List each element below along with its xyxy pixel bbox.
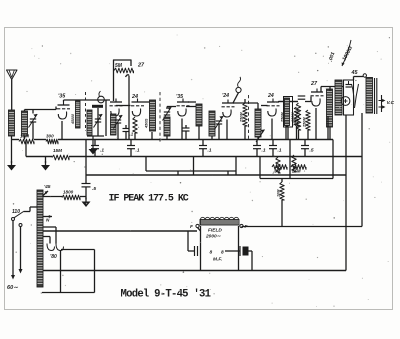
wire res 286 up: [285, 100, 287, 104]
wire C1 bottom: [32, 122, 34, 140]
wire V4 cathode drop: [226, 120, 228, 140]
tube V7 45 filament: [352, 84, 359, 108]
wire ground bus bottom: [40, 270, 346, 272]
wire AF box left: [289, 140, 291, 179]
resistor 300: [46, 139, 58, 144]
svg-text:45000: 45000: [71, 114, 75, 125]
wire ground drop: [45, 157, 47, 164]
capacitor C9 .1 small: [123, 125, 130, 140]
wire heater 1800 line: [43, 196, 87, 198]
label 250M sideways: [240, 112, 244, 123]
wire tank bottom: [87, 135, 104, 137]
label .5M: [273, 169, 281, 174]
coil L8: [255, 109, 261, 137]
label tube 27 AF: [310, 81, 318, 87]
resistor 15M: [52, 155, 69, 160]
wire field right wall: [238, 226, 240, 271]
wire output drop right: [361, 113, 363, 227]
wire L2 top to grid: [24, 110, 26, 112]
ground antenna: [7, 161, 16, 171]
shield dashed line 0: [85, 92, 87, 131]
wire V5 cathode drop: [271, 119, 273, 140]
wire filter box bottom: [42, 292, 95, 294]
wire c14 up: [85, 175, 87, 184]
capacitor C14 .5: [82, 184, 91, 187]
label 8 left: [210, 250, 213, 256]
wire V2 grid stub: [116, 105, 131, 107]
svg-text:.5: .5: [92, 186, 96, 192]
svg-text:8: 8: [210, 250, 213, 256]
coil L3b det tank: [111, 114, 117, 135]
ground osc tank: [89, 136, 98, 155]
wire V3 plate lead: [188, 101, 196, 103]
wire c14 down: [85, 187, 87, 200]
tube V7 45 grid circle: [341, 97, 350, 106]
coil T1 output winding: [335, 80, 342, 115]
svg-text:60∼: 60∼: [7, 285, 18, 291]
wire L1 to ground: [11, 136, 13, 163]
wire L6 bottom: [198, 126, 200, 140]
wire coupling link: [278, 97, 311, 102]
wire V2 plate lead: [144, 101, 153, 103]
capacitor C11 .1: [183, 125, 190, 140]
capacitor .001 plate: [346, 81, 352, 87]
wire rect plate 2: [43, 237, 51, 244]
resistor 5M oscillator: [114, 68, 134, 73]
label tube 24 first det: [131, 94, 138, 100]
label .1: [130, 132, 134, 137]
wire plate to coil: [257, 103, 259, 109]
wire grid cap lead: [233, 93, 239, 103]
wire tick x228: [227, 171, 229, 175]
wire tie x193: [193, 157, 195, 176]
wire tie x260: [259, 157, 261, 179]
label 8 right: [221, 250, 224, 256]
wire V6 cathode drop: [315, 108, 317, 140]
wire L4 bottom: [151, 132, 153, 140]
coil L9 AF choke: [327, 89, 333, 127]
wire L8 bottom: [257, 137, 259, 140]
label tube 24: [267, 93, 274, 99]
resistor osc grid sideways: [76, 101, 81, 128]
wire grid lead V3: [167, 106, 176, 108]
wire L9 top: [329, 87, 331, 92]
resistor 100M: [294, 107, 298, 126]
svg-text:10M: 10M: [277, 189, 281, 197]
wire res 296 down: [296, 126, 298, 140]
label tube 45 output: [351, 70, 359, 76]
svg-text:2000∼: 2000∼: [205, 234, 222, 240]
svg-text:25M: 25M: [293, 118, 297, 127]
svg-text:300: 300: [46, 134, 54, 139]
node F left: [196, 224, 199, 227]
svg-text:27: 27: [310, 81, 318, 87]
node F right: [240, 224, 243, 227]
svg-text:'24: '24: [222, 93, 229, 99]
wire V3 cathode drop: [181, 119, 183, 140]
label 25M: [291, 169, 301, 174]
tube V7 45 box: [344, 80, 354, 115]
svg-text:.1: .1: [136, 148, 140, 154]
wire V3 screen lead: [186, 106, 196, 108]
wire T1 bottom lead: [327, 116, 329, 140]
svg-text:'35: '35: [176, 94, 183, 100]
wire mains to primary 2: [25, 224, 37, 226]
capacitor C4 .1: [199, 140, 207, 157]
tube V8 '80 rectifier: [47, 244, 64, 251]
wire V6 plate lead: [321, 87, 343, 93]
wire tie x332: [332, 140, 334, 179]
wire speaker core: [375, 78, 377, 114]
wire voice coil arrows: [379, 95, 386, 112]
resistor 1800: [62, 195, 80, 200]
wire rect cathode: [60, 251, 62, 293]
label .001 handwritten: [328, 51, 337, 62]
wire r25 down: [298, 130, 300, 140]
variable capacitor C1 tuning: [29, 114, 38, 128]
wire field top left: [198, 228, 201, 231]
grid cap curl: [236, 77, 241, 93]
coil L3a osc tank: [87, 110, 92, 135]
wire grid leak bottom: [244, 126, 246, 140]
label 25M sideways: [293, 118, 297, 127]
svg-text:27: 27: [137, 63, 145, 69]
wire AVC rail with resistors: [12, 139, 334, 141]
resistor 250M: [284, 104, 288, 126]
svg-text:8: 8: [221, 250, 224, 256]
wire V5 grid stub: [261, 105, 268, 107]
svg-text:1800: 1800: [63, 190, 74, 195]
coil L5 IF secondary: [164, 117, 170, 136]
coil L6 IF2 primary: [196, 104, 202, 126]
label .1: [262, 148, 266, 154]
coil L2 antenna secondary: [22, 111, 28, 136]
wire tie x88: [85, 140, 87, 175]
wire C8b bottom: [117, 123, 119, 140]
wire 45 top link: [354, 77, 364, 81]
resistor 250M AF: [306, 110, 310, 130]
wire V5 plate lead: [279, 101, 298, 103]
wire c16 drop: [251, 251, 253, 271]
label .1: [136, 148, 140, 154]
wire field feed: [242, 226, 363, 228]
wire C1 top: [32, 110, 34, 114]
capacitor C2 .1: [91, 140, 99, 157]
coil field 2000 ohm: [200, 217, 239, 225]
wire tick x178: [177, 171, 179, 175]
label M.F.: [213, 257, 222, 263]
wire grid leak top: [244, 99, 246, 103]
coil L7 IF2 secondary: [209, 111, 215, 136]
svg-text:Model 9-T-45 '31: Model 9-T-45 '31: [121, 289, 211, 301]
ground cathode rail: [41, 161, 50, 171]
label 10M sideways: [277, 189, 281, 197]
svg-text:.1: .1: [262, 148, 266, 154]
resistor R cathode V2: [133, 117, 137, 133]
wire rail stub left: [25, 140, 27, 157]
wire mains to primary: [24, 207, 38, 212]
label tube '35 first RF: [58, 94, 66, 100]
label .1: [208, 148, 212, 154]
wire pot bottom: [287, 127, 289, 140]
tube V1 '35: [57, 102, 70, 120]
label 1000 ohm handwritten: [341, 45, 354, 62]
svg-text:45: 45: [351, 70, 359, 76]
resistor 250M grid leak: [243, 103, 247, 126]
shield dashed line 2: [248, 95, 250, 140]
variable capacitor C8a: [94, 114, 103, 128]
resistor 25M AF: [296, 103, 300, 130]
svg-text:.5: .5: [310, 148, 314, 154]
label 2000 ohm: [205, 234, 222, 240]
svg-text:10M: 10M: [20, 134, 29, 139]
trimmer arrow L8: [256, 130, 265, 143]
scan speckle noise: [13, 35, 390, 307]
tube V9 27 oscillator: [110, 99, 123, 117]
wire L2 bottom: [24, 136, 26, 140]
coil L4 IF primary: [150, 100, 156, 131]
tube V6 27: [311, 89, 324, 107]
label FIELD: [208, 228, 222, 234]
label .1: [278, 148, 282, 154]
svg-text:'45: '45: [44, 184, 51, 190]
wire V1 grid stub: [56, 108, 58, 110]
label 250M sideways 2: [281, 112, 285, 123]
wire heater arrow 2: [43, 215, 53, 218]
wire output drop left: [345, 115, 347, 271]
wire B+ filter bus: [41, 230, 197, 232]
svg-text:IF PEAK 177.5 KC: IF PEAK 177.5 KC: [109, 194, 189, 205]
svg-text:FIELD: FIELD: [208, 228, 222, 234]
capacitor C15 8mf: [188, 246, 198, 256]
label F left: [190, 224, 194, 230]
resistor 25M: [291, 165, 306, 170]
wire L5 bottom: [166, 136, 168, 140]
wire V1 cathode drop: [61, 121, 63, 140]
resistor bias vertical: [276, 157, 280, 173]
svg-text:.1: .1: [130, 132, 134, 137]
label Model 9-T-45 '31: [121, 289, 211, 301]
wire c15 feed: [187, 231, 189, 251]
capacitor C13 coupling: [298, 96, 306, 99]
resistor .5M: [272, 165, 287, 170]
label F right: [245, 224, 249, 230]
wire L7 bottom: [211, 136, 213, 140]
potentiometer volume: [284, 97, 293, 128]
label 110 volts: [12, 209, 20, 215]
label 250M sideways 3: [303, 117, 307, 128]
node grid cap loop: [98, 91, 105, 103]
wire filter box right: [94, 250, 96, 293]
wire pointer arrow: [342, 40, 351, 66]
svg-text:'35: '35: [58, 94, 66, 100]
ground c14: [82, 198, 91, 208]
wire antenna lead: [11, 80, 13, 111]
wire r250 down: [307, 130, 309, 140]
label 100M sideways: [291, 112, 295, 122]
coil T2 speaker primary: [366, 78, 373, 114]
label .5: [310, 148, 314, 154]
wire V2 cathode drop: [134, 133, 136, 140]
svg-text:.1: .1: [208, 148, 212, 154]
variable capacitor C8b: [114, 115, 123, 129]
wire cathode rail: [26, 156, 362, 158]
wire mains left: [11, 221, 15, 280]
label V.C: [387, 100, 395, 106]
label 5M: [115, 63, 123, 69]
capacitor C7 .5: [301, 140, 309, 157]
wire L9 bottom: [329, 127, 331, 140]
svg-text:V.C: V.C: [387, 100, 395, 106]
svg-text:.1: .1: [278, 148, 282, 154]
node speaker top: [363, 74, 366, 77]
svg-text:250M: 250M: [303, 117, 307, 128]
capacitor C16 8mf: [225, 246, 249, 256]
transformer T3 power: [37, 190, 43, 287]
coil L1 antenna primary: [9, 110, 15, 136]
tube V4 24: [222, 100, 235, 118]
svg-text:250M: 250M: [240, 112, 244, 123]
wire heater 45 arrow: [43, 191, 49, 196]
label tube '35 IF: [176, 94, 183, 100]
capacitor C5 .1: [253, 140, 261, 157]
switch power: [12, 212, 24, 227]
label 15M: [53, 148, 62, 153]
wire mains right: [19, 227, 23, 274]
wire c16 out: [249, 250, 253, 252]
wire C10 top lead: [166, 107, 168, 110]
wire V4 plate lead: [233, 102, 258, 104]
wire C12 bottom: [218, 124, 220, 140]
label 45000 sideways: [71, 114, 75, 125]
capacitor C3 .1: [127, 140, 135, 157]
label tube 24 second det: [222, 93, 229, 99]
wire rect plate 1: [43, 227, 57, 244]
tube V2 24: [131, 99, 144, 117]
label 300: [46, 134, 54, 139]
svg-text:M.F.: M.F.: [213, 257, 222, 263]
capacitor C6 .1: [269, 140, 277, 157]
wire filter box top: [61, 249, 95, 251]
wire osc plate drop: [126, 75, 130, 140]
wire field left wall: [200, 226, 202, 271]
wire V1 plate lead: [64, 99, 111, 101]
wire bar drop: [97, 108, 99, 136]
label .5 cap: [92, 186, 96, 192]
svg-text:450Ω: 450Ω: [145, 119, 149, 129]
label N: [46, 218, 50, 223]
wire V1 plate stub: [63, 100, 65, 102]
label tube '80: [50, 254, 57, 260]
svg-text:'80: '80: [50, 254, 57, 260]
wire res 286 down: [285, 126, 287, 140]
resistor 10M: [19, 139, 34, 144]
svg-text:.1: .1: [100, 148, 104, 154]
resistor bias vertical 2: [292, 155, 296, 172]
label .1: [100, 148, 104, 154]
wire tie x146: [145, 157, 147, 172]
label heater '45: [44, 184, 51, 190]
label 1800: [63, 190, 74, 195]
svg-text:15M: 15M: [53, 148, 62, 153]
wire AF bus segment: [260, 178, 333, 180]
tube V5 24: [267, 99, 280, 117]
shield dashed line: [159, 92, 161, 142]
wire osc plate bar: [92, 105, 103, 108]
wire grid lead V1: [25, 109, 57, 111]
wire hum res top: [281, 179, 283, 183]
label 10M: [20, 134, 29, 139]
resistor 10M hum: [280, 182, 284, 200]
label 60 cycles: [7, 285, 18, 291]
wire det tank drop: [105, 100, 107, 136]
label coil sideways: [145, 119, 149, 129]
tube V3 '35: [177, 99, 190, 117]
wire hum res down: [281, 200, 283, 227]
wire tie x236: [235, 157, 237, 176]
wire screen bus segment: [146, 170, 236, 172]
svg-text:24: 24: [267, 93, 274, 99]
label tube 27 oscillator: [137, 63, 145, 69]
variable capacitor C12: [215, 116, 224, 130]
wire B+ rail: [86, 174, 346, 176]
wire grid drop V1: [55, 107, 57, 110]
variable capacitor C10: [163, 107, 172, 121]
label IF PEAK 177.5 KC: [109, 194, 189, 205]
antenna: [7, 70, 18, 80]
wire oscillator loop: [114, 60, 132, 101]
